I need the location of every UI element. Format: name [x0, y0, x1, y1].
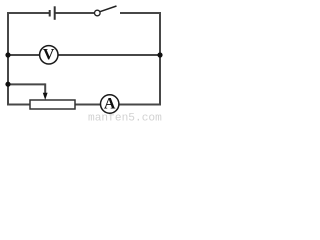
svg-text:A: A — [104, 96, 116, 113]
svg-text:V: V — [43, 46, 55, 63]
svg-text:manfen5.com: manfen5.com — [88, 113, 162, 121]
